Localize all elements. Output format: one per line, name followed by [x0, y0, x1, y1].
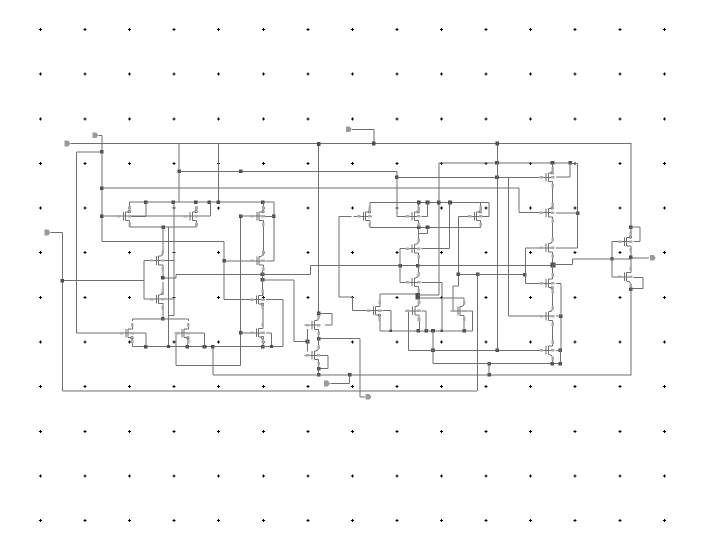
transistor S nmos: [405, 310, 421, 311]
wire VDD top rail from port IN2: [71, 143, 632, 144]
wire T1 diode hook: [197, 216, 211, 217]
node net227-427 junction: [426, 226, 430, 230]
wire I leftgate stub: [612, 241, 618, 242]
wire E bottom hook: [480, 225, 481, 228]
node J-bottom junction: [629, 287, 633, 291]
wire gnd left rail: [62, 233, 63, 391]
wire C top link: [418, 227, 419, 242]
wire x497 segment: [497, 144, 498, 163]
wire T2 leftgate stub: [241, 216, 251, 217]
wire E top stub: [480, 203, 481, 208]
wire F rightgate stub: [556, 212, 578, 213]
wire link to x438: [418, 295, 439, 296]
wire S diode hook: [421, 310, 426, 311]
node x497-350 junction: [496, 349, 500, 353]
transistor H pmos-flipped: [539, 283, 555, 284]
node rail-173 junction: [172, 200, 176, 204]
node rail171-x179 junction: [178, 170, 182, 174]
wire hook to x76 rail: [76, 151, 102, 152]
wire IN1 bottom elbow: [102, 241, 224, 242]
node big output junction: [550, 263, 555, 268]
node rail-218 junction: [217, 200, 221, 204]
wire IN1 net down x101: [99, 135, 102, 136]
transistor N pmos-flipped: [249, 299, 265, 300]
node rail-373 junction: [372, 142, 376, 146]
node net177-x497 junction: [495, 176, 499, 180]
node rail-497 junction: [496, 142, 500, 146]
node bottom-163 junction: [161, 225, 165, 229]
node net162-552 junction: [551, 161, 555, 165]
wire branch x508 down: [508, 177, 509, 316]
wire F2-F link: [552, 186, 553, 205]
node stackA junction: [261, 273, 265, 277]
node Q-bottom junction: [317, 367, 321, 371]
wire net188 drop to F gate: [518, 188, 519, 213]
transistor G nmos: [539, 247, 555, 248]
wire port4 link: [349, 375, 350, 384]
port IN1: [92, 133, 98, 139]
wire net188 long: [102, 187, 519, 188]
wire link to T top: [418, 297, 464, 298]
wire net338 to port5 chain: [319, 338, 361, 339]
wire T0 T1 gate line: [102, 216, 186, 217]
node net177 junction x396: [395, 176, 399, 180]
node T2 rightgate junction: [272, 215, 276, 219]
transistor U nmos: [305, 325, 321, 326]
wire D gate feed: [400, 266, 401, 283]
wire I bottom link: [630, 250, 631, 257]
node x433-350 junction: [431, 349, 435, 353]
wire E leftgate chain: [459, 216, 468, 217]
node out-611 dot: [610, 257, 613, 260]
transistor J nmos-flipped: [617, 276, 633, 277]
wire T0 diode hook: [145, 202, 146, 217]
wire I diode hook: [631, 227, 640, 228]
wire U diode hook: [319, 313, 332, 314]
wire L2 rightgate stub: [162, 299, 174, 300]
wire VDD drop x218: [218, 144, 219, 203]
transistor K pmos-flipped: [119, 333, 135, 334]
wire S leftgate chain: [408, 311, 409, 350]
wire J to gnd rail: [631, 289, 632, 375]
node net171-x240 junction: [239, 170, 243, 174]
node x240-216 junction: [239, 214, 243, 218]
node net227-418 junction: [417, 226, 421, 230]
wire V rightgate stub: [556, 350, 560, 351]
wire x396 down to B gate: [396, 177, 397, 216]
node net274-524 junction: [523, 273, 527, 277]
wire U top stub: [318, 313, 319, 315]
node net265-400 junction: [399, 264, 403, 268]
node x577-213 junction: [576, 212, 580, 216]
transistor W nmos: [539, 316, 555, 317]
wire rail end stub: [266, 202, 274, 203]
wire M rightgate hook: [190, 333, 204, 334]
transistor T0 pmos: [116, 216, 132, 217]
wire K bottom drop: [132, 337, 133, 346]
wire L2 top link: [162, 282, 163, 295]
wire x163 chain L1 top: [162, 227, 163, 252]
node rail-195 junction: [194, 200, 198, 204]
wire J bottom stub: [630, 285, 631, 289]
wire x173 long drop: [173, 202, 174, 316]
wire VDD drop x179: [179, 144, 180, 203]
node IN1-151 junction: [100, 150, 104, 154]
wire V bottom link: [552, 359, 553, 364]
node bus-212 junction: [211, 345, 215, 349]
wire G H gate chain: [525, 248, 526, 283]
wire x577 lower: [577, 213, 578, 248]
wire x433 drop: [433, 331, 434, 364]
node x560-350 junction: [559, 348, 563, 352]
wire VDD far right drop: [631, 144, 632, 228]
wire N O stack: [262, 303, 263, 326]
wire U gate drop: [307, 329, 308, 342]
node x560-316 junction: [559, 314, 563, 318]
wire step to nodeA: [163, 277, 176, 278]
transistor R pmos-flipped: [366, 310, 382, 311]
wire K diode hook: [132, 333, 146, 334]
node net162-570 junction: [568, 161, 572, 165]
transistor I pmos: [617, 241, 633, 242]
wire x577 chain: [570, 163, 578, 164]
wire P rightgate stub: [266, 260, 274, 261]
wire net318 right to M top: [163, 318, 189, 319]
wire branch to W gate: [509, 316, 541, 317]
wire x497 long: [497, 163, 498, 350]
node gnd-477 junction: [476, 273, 480, 277]
wire C gate feed: [400, 249, 401, 266]
wire R diode hook: [383, 310, 391, 311]
wire net265 long: [311, 265, 553, 266]
node QU-gate junction: [306, 340, 310, 344]
node IN1-216 junction: [100, 214, 104, 218]
wire F2 diode hook: [556, 176, 570, 177]
wire gnd wire 363: [477, 363, 560, 364]
wire T rightgate hook: [466, 311, 473, 312]
transistor A pmos: [356, 216, 372, 217]
wire C gate jog: [427, 227, 428, 233]
wire L2 bottom drop: [162, 303, 163, 319]
wire to N gate: [224, 299, 250, 300]
wire net171 horizontal: [179, 171, 397, 172]
wire Q gate drop: [307, 342, 308, 352]
wire R top link: [379, 294, 380, 302]
wire W rightgate stub: [556, 316, 561, 317]
wire C rightgate hook: [421, 248, 449, 249]
transistor T nmos: [450, 311, 466, 312]
node gnd363-489 junction: [487, 362, 491, 366]
wire W-V link: [552, 324, 553, 342]
wire F2 top stub: [552, 163, 553, 169]
node U-top junction: [317, 312, 321, 316]
transistor T1 pmos: [183, 216, 199, 217]
port OUT-mid P5: [366, 394, 372, 400]
node net265-417 junction: [416, 264, 420, 268]
wire bigj to H top: [552, 265, 553, 275]
wire x76 to K gate: [76, 332, 119, 333]
wire net318 left to K top: [132, 318, 163, 319]
node rail2-427 junction: [426, 201, 430, 205]
node bus-145 junction: [144, 345, 148, 349]
node L1-bottom junction: [161, 276, 165, 280]
wire x560 bottom: [560, 350, 561, 364]
node bus-204 junction: [203, 345, 207, 349]
node RS junction tall: [416, 293, 421, 298]
node busR-433 junction: [431, 329, 435, 333]
wire nodeA right: [263, 274, 311, 275]
wire H-W link: [552, 292, 553, 308]
wire net162: [439, 162, 570, 163]
wire VDD right drop to U column: [318, 144, 319, 314]
wire x433 corner: [433, 363, 477, 364]
transistor Q nmos: [305, 355, 321, 356]
wire A R gate chain: [339, 216, 352, 217]
wire U-Q link: [318, 339, 319, 348]
wire output step: [553, 264, 573, 265]
wire net227: [370, 227, 481, 228]
transistor D nmos: [405, 282, 421, 283]
wire J diode hook: [634, 277, 644, 278]
wire F-G link: [552, 221, 553, 240]
node rail375-489 junction: [487, 373, 491, 377]
wire G bottom link: [552, 256, 553, 265]
node busR-441 nub: [441, 330, 444, 333]
wire L1 bottom to junction: [162, 269, 163, 278]
node gnd-280 junction: [61, 279, 65, 283]
wire to P gate: [224, 260, 250, 261]
wire A gate left: [353, 216, 359, 217]
wire stack column x262: [263, 225, 264, 256]
node bus-187 junction: [186, 345, 190, 349]
wire D bottom stub: [418, 291, 419, 293]
node bus-262 junction: [261, 345, 265, 349]
wire L-gates feed: [62, 280, 143, 281]
node rail2-438 junction: [437, 201, 441, 205]
transistor L1 nmos: [149, 260, 165, 261]
wire jog to x168: [168, 315, 173, 316]
node U-bottom junction: [317, 337, 321, 341]
node busR-390 nub: [390, 330, 393, 333]
wire gnd riser x477: [477, 274, 478, 390]
wire T2 top drop: [263, 202, 264, 208]
transistor V nmos-flipped: [539, 350, 555, 351]
node net162-497 junction: [495, 161, 499, 165]
wire L1 rightgate stub: [162, 260, 174, 261]
node stackB junction: [261, 278, 265, 282]
wire T2 rightgate stub: [265, 216, 274, 217]
wire output port stub: [631, 257, 649, 258]
wire N rightgate hook: [266, 299, 283, 300]
node I-top junction: [629, 225, 633, 229]
wire M leftgate chain: [176, 333, 177, 366]
wire x168 drop: [168, 227, 169, 346]
wire Q diode hook: [319, 355, 328, 356]
wire J top link: [630, 257, 631, 268]
node L2-top junction: [161, 276, 165, 280]
wire IJ gate link: [611, 242, 612, 277]
wire x240 to O gate net: [240, 216, 241, 366]
wire O leftgate stub: [241, 332, 250, 333]
wire A top stub: [369, 203, 370, 208]
wire rail2 corner to E: [489, 203, 490, 217]
wire net171 jog down: [396, 171, 397, 177]
wire B top stub: [418, 203, 419, 208]
wire G rightgate stub: [556, 247, 578, 248]
wire T bottom stub: [464, 319, 465, 331]
transistor E pmos: [467, 216, 483, 217]
node busR-426 junction: [424, 329, 428, 333]
wire net177 to F2 gate: [397, 177, 541, 178]
transistor P nmos: [250, 260, 266, 261]
wire gnd net274 right: [478, 274, 525, 275]
wire Q to rail: [318, 369, 319, 375]
node busR-464 junction: [462, 329, 466, 333]
wire R bottom stub: [379, 319, 380, 331]
wire C bottom: [418, 256, 419, 266]
node output junction: [629, 256, 633, 260]
wire x273 drop: [273, 202, 274, 261]
wire gnd bottom rail: [62, 390, 477, 391]
node gndE-458 junction: [457, 273, 461, 277]
node rail-209 junction: [207, 200, 211, 204]
node net318 junction: [161, 317, 165, 321]
wire T0T1 bottom bus: [130, 227, 197, 228]
node gnd363-560 junction: [559, 362, 563, 366]
node bus-271 dot: [270, 345, 273, 348]
node busR-418 junction: [416, 329, 420, 333]
wire gnd link 489: [489, 364, 490, 375]
port OUT: [650, 255, 656, 261]
transistor F pmos: [539, 212, 555, 213]
wire T0 top drop: [129, 202, 130, 208]
port IN3 P4: [324, 381, 330, 387]
wire bus to gnd rail: [212, 347, 213, 375]
node x240-332 junction: [239, 331, 243, 335]
node bus-168 dot: [167, 345, 170, 348]
port IN4 P3: [346, 127, 352, 133]
wire gnd stub: [51, 232, 63, 233]
node rail2-418 junction: [417, 201, 421, 205]
node VDD-U junction: [317, 142, 321, 146]
wire S bottom stub: [419, 319, 420, 331]
node rail375-349 junction: [348, 373, 352, 377]
wire S top stub: [419, 298, 420, 303]
node rail-262 junction: [261, 200, 265, 204]
node rail-145 junction: [144, 200, 148, 204]
transistor T2 pmos: [250, 216, 266, 217]
wire E chain jog to T gate: [453, 285, 459, 286]
transistor O pmos-flipped: [249, 332, 265, 333]
transistor B pmos: [405, 216, 421, 217]
wire gnd rail 375: [213, 374, 632, 375]
node gnd363-552 junction: [551, 362, 555, 366]
grid dots: [39, 28, 42, 31]
wire J leftgate stub: [612, 276, 618, 277]
transistor F2 pmos: [539, 177, 555, 178]
wire gnd bus: [132, 346, 282, 347]
wire Q bottom stub: [318, 364, 319, 369]
wire RS bottom bus: [380, 330, 473, 331]
wire H rightgate chain: [556, 283, 561, 284]
wire nodeB to QU gates: [263, 279, 294, 280]
wire M bottom drop: [187, 337, 188, 346]
node rail-318 junction: [317, 373, 321, 377]
wire link 458-477: [458, 274, 477, 275]
transistor L2 nmos: [149, 299, 165, 300]
wire VDD rail right: [370, 202, 489, 203]
node IN1-188 junction: [100, 186, 104, 190]
transistor C nmos: [405, 248, 421, 249]
wire U bottom stub: [318, 333, 319, 338]
wire D rightgate chain: [421, 282, 442, 283]
wire O rightgate hook: [266, 332, 272, 333]
node rail2-450 junction: [448, 201, 452, 205]
port GND: [45, 230, 51, 236]
wire D top: [418, 266, 419, 276]
port IN2: [65, 141, 71, 147]
wire B diode hook: [421, 216, 427, 217]
transistor M pmos-flipped: [174, 333, 190, 334]
node N-gate-net P junction: [222, 259, 226, 263]
wire I top stub: [630, 227, 631, 233]
wire VDD rail left: [130, 202, 266, 203]
wire port3 link: [352, 129, 374, 130]
